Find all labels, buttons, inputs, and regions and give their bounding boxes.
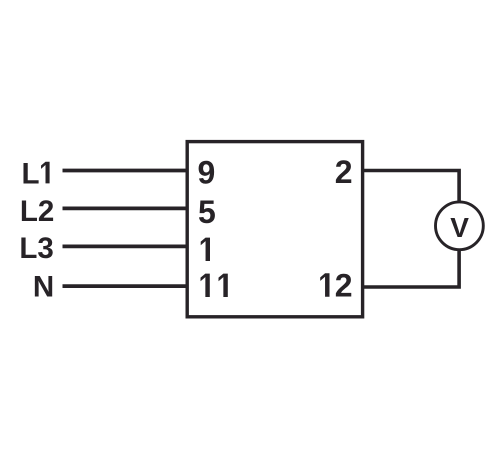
wire N xyxy=(63,284,188,288)
wire pin2 to voltmeter xyxy=(363,171,460,203)
svg-text:L: L xyxy=(22,157,40,190)
svg-text:5: 5 xyxy=(198,194,216,230)
wire L2 xyxy=(63,206,188,210)
wire L3 xyxy=(63,244,188,248)
svg-text:9: 9 xyxy=(198,155,216,191)
svg-text:L2: L2 xyxy=(20,195,54,228)
wire pin12 to voltmeter xyxy=(363,251,460,288)
wire L1 xyxy=(63,169,188,173)
pin 1 xyxy=(201,238,210,261)
node label L1 xyxy=(22,157,50,190)
pin 12 xyxy=(320,268,352,304)
svg-text:V: V xyxy=(450,212,469,243)
svg-text:N: N xyxy=(33,271,54,304)
device box U1 xyxy=(187,142,362,317)
svg-text:L3: L3 xyxy=(19,232,53,265)
pin 11 xyxy=(201,274,228,297)
svg-text:2: 2 xyxy=(335,154,353,190)
svg-text:2: 2 xyxy=(335,268,353,304)
voltmeter V1 circle xyxy=(436,202,484,250)
